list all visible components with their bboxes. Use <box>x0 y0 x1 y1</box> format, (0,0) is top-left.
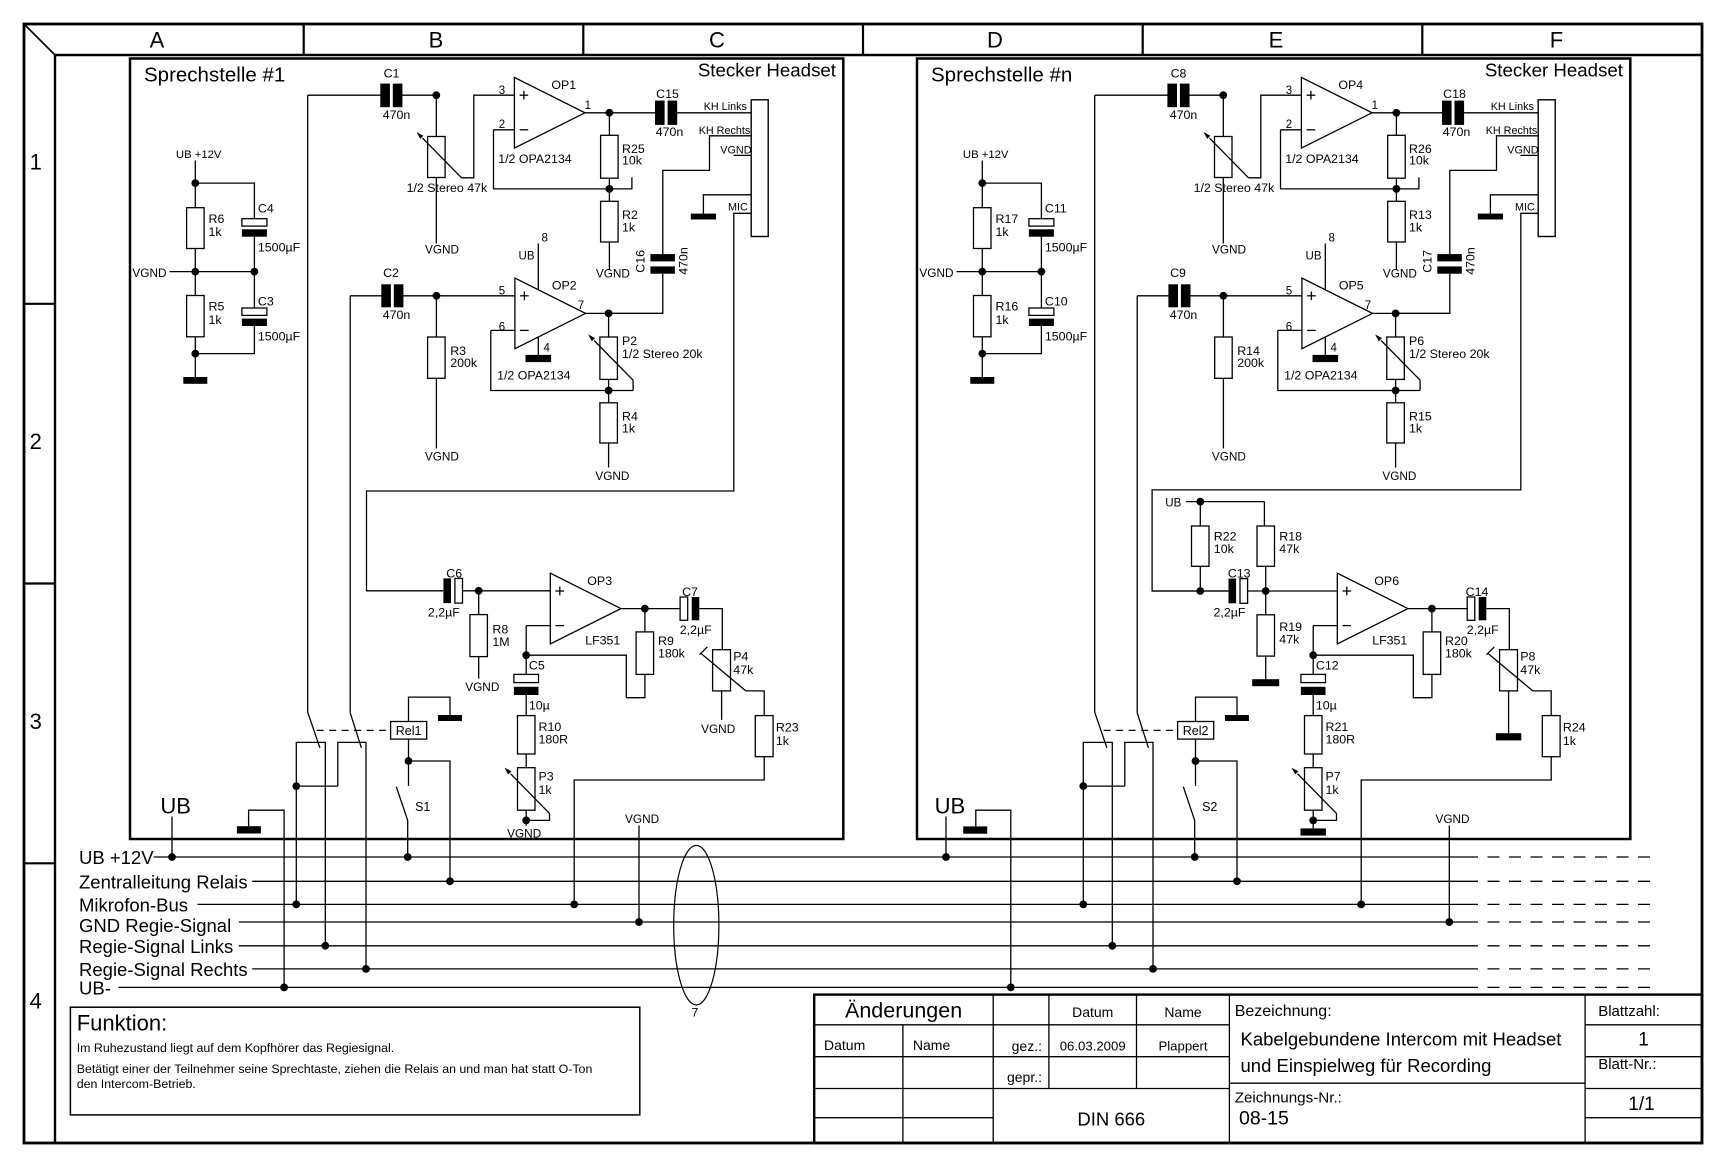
Funktion note box <box>70 1007 639 1115</box>
capacitor C16 470n <box>633 247 690 275</box>
wire MIC signal feed <box>1152 213 1538 591</box>
svg-text:S2: S2 <box>1202 800 1217 814</box>
svg-text:1k: 1k <box>996 225 1010 239</box>
resistor R14 200k <box>1215 337 1265 378</box>
svg-text:gepr.:: gepr.: <box>1007 1069 1042 1085</box>
capacitor C2 470n <box>381 266 410 322</box>
ground <box>1252 679 1279 686</box>
node <box>292 901 300 909</box>
wire <box>407 820 409 857</box>
svg-text:LF351: LF351 <box>1372 633 1407 647</box>
svg-text:Rel1: Rel1 <box>396 724 422 738</box>
bus Zentralleitung Relais <box>79 872 1657 893</box>
capacitor C9 470n <box>1168 266 1197 322</box>
node <box>1038 268 1046 276</box>
node <box>635 918 643 926</box>
svg-text:C13: C13 <box>1228 567 1251 581</box>
potentiometer P2 1/2 Stereo 20k <box>588 334 703 380</box>
svg-text:KH Links: KH Links <box>1491 101 1535 113</box>
svg-text:470n: 470n <box>1443 125 1471 139</box>
dashed relay link <box>317 729 391 731</box>
pin 4 ground <box>1313 337 1339 362</box>
svg-text:UB +12V: UB +12V <box>79 847 154 868</box>
svg-text:Sprechstelle #n: Sprechstelle #n <box>931 64 1072 87</box>
node <box>605 310 613 318</box>
resistor R9 180k <box>636 632 686 675</box>
svg-text:Blatt-Nr.:: Blatt-Nr.: <box>1598 1056 1656 1073</box>
svg-text:OP1: OP1 <box>551 78 576 92</box>
wire VGND tap <box>170 271 255 273</box>
wire <box>1395 178 1397 201</box>
svg-text:10k: 10k <box>1214 542 1235 556</box>
wire <box>525 810 527 825</box>
svg-text:1: 1 <box>1638 1030 1649 1051</box>
wire <box>525 754 527 768</box>
node <box>570 901 578 909</box>
station box Sprechstelle #n <box>917 59 1630 840</box>
svg-text:R24: R24 <box>1563 720 1586 734</box>
relay contact lever B <box>350 713 361 748</box>
node <box>405 757 413 765</box>
bus Regie-Signal Links <box>79 936 1657 957</box>
wire <box>1395 443 1397 468</box>
svg-text:Stecker Headset: Stecker Headset <box>698 60 837 81</box>
wire <box>1083 785 1125 787</box>
wire feedback <box>1313 655 1432 698</box>
potentiometer P8 47k <box>1487 647 1542 691</box>
svg-text:Bezeichnung:: Bezeichnung: <box>1235 1003 1332 1020</box>
svg-text:7: 7 <box>692 1006 699 1020</box>
svg-text:MIC: MIC <box>1515 202 1535 214</box>
node <box>522 651 530 659</box>
svg-text:Änderungen: Änderungen <box>845 999 962 1023</box>
wire <box>608 379 610 402</box>
svg-text:Name: Name <box>913 1037 951 1053</box>
svg-text:47k: 47k <box>1279 633 1300 647</box>
svg-text:KH Links: KH Links <box>704 101 748 113</box>
svg-text:08-15: 08-15 <box>1239 1108 1289 1130</box>
node <box>191 350 199 358</box>
node <box>1428 605 1436 613</box>
svg-text:P4: P4 <box>733 649 748 663</box>
potentiometer P6 1/2 Stereo 20k <box>1375 334 1490 380</box>
node <box>475 587 483 595</box>
node <box>978 179 986 187</box>
svg-text:1k: 1k <box>1326 783 1340 797</box>
svg-text:3: 3 <box>1286 85 1292 97</box>
svg-text:UB: UB <box>935 794 966 819</box>
node <box>446 877 454 885</box>
wire <box>402 295 437 297</box>
wire wiper <box>632 380 634 390</box>
resistor R20 180k <box>1423 632 1472 675</box>
column letters A-F <box>150 28 1564 53</box>
wire feedback <box>1278 330 1420 390</box>
svg-text:Name: Name <box>1164 1004 1202 1020</box>
wire <box>981 161 983 208</box>
wire <box>435 296 437 337</box>
svg-text:P8: P8 <box>1520 649 1535 663</box>
svg-text:47k: 47k <box>1279 542 1300 556</box>
wire output <box>1372 112 1442 114</box>
bus Mikrofon-Bus <box>79 895 1657 916</box>
wire <box>194 161 196 208</box>
svg-text:OP5: OP5 <box>1339 279 1364 293</box>
wire <box>253 235 255 310</box>
svg-text:1/2 OPA2134: 1/2 OPA2134 <box>1284 368 1358 382</box>
svg-text:VGND: VGND <box>507 827 541 841</box>
wire output <box>621 608 681 610</box>
wire feedback <box>494 130 610 189</box>
svg-text:Betätigt einer der Teilnehmer: Betätigt einer der Teilnehmer seine Spre… <box>77 1062 593 1076</box>
resistor R18 47k <box>1257 526 1302 566</box>
svg-text:3: 3 <box>499 85 505 97</box>
wire to Zentralleitung Relais <box>409 761 451 881</box>
node <box>191 268 199 276</box>
node <box>1192 757 1200 765</box>
svg-text:OP3: OP3 <box>587 574 612 588</box>
svg-text:4: 4 <box>544 343 551 355</box>
svg-text:Kabelgebundene Intercom mit He: Kabelgebundene Intercom mit Headset <box>1241 1029 1562 1050</box>
wire <box>1189 295 1224 297</box>
svg-text:C3: C3 <box>258 294 274 308</box>
wire wiper <box>526 813 549 820</box>
wire <box>195 183 254 219</box>
wire <box>1462 112 1538 114</box>
svg-text:47k: 47k <box>1520 663 1541 677</box>
capacitor C11 1500uF <box>1029 202 1088 255</box>
wire <box>608 178 610 201</box>
node <box>432 91 440 99</box>
wire coil to ground <box>1196 697 1238 721</box>
node <box>522 817 530 825</box>
svg-text:P6: P6 <box>1409 334 1424 348</box>
svg-text:1k: 1k <box>1409 421 1423 435</box>
wire <box>608 113 610 136</box>
node <box>1309 817 1317 825</box>
svg-text:VGND: VGND <box>1507 144 1538 156</box>
node <box>1393 185 1401 193</box>
svg-text:R17: R17 <box>996 212 1019 226</box>
svg-text:2: 2 <box>30 429 42 454</box>
op-amp OP6 LF351 <box>1337 573 1408 647</box>
wire <box>1312 626 1314 675</box>
wire UB to bus <box>171 817 173 858</box>
svg-text:R6: R6 <box>209 212 225 226</box>
wire - input <box>1313 625 1337 627</box>
node <box>1392 310 1400 318</box>
capacitor C4 1500uF <box>242 202 301 255</box>
op-amp OP3 LF351 <box>550 573 621 647</box>
capacitor C15 470n <box>655 87 683 139</box>
node <box>1309 651 1317 659</box>
svg-text:3: 3 <box>30 709 42 734</box>
wire <box>699 609 722 650</box>
node <box>321 942 329 950</box>
svg-text:C6: C6 <box>446 567 462 581</box>
dashed relay link <box>1104 729 1178 731</box>
node <box>978 350 986 358</box>
wire <box>435 378 437 448</box>
wire <box>1040 235 1042 310</box>
svg-text:1500µF: 1500µF <box>1045 241 1088 255</box>
svg-text:VGND: VGND <box>1212 242 1246 256</box>
wire <box>1395 242 1397 270</box>
svg-text:Im Ruhezustand liegt auf dem K: Im Ruhezustand liegt auf dem Kopfhörer d… <box>77 1041 395 1055</box>
svg-text:C18: C18 <box>1443 87 1466 101</box>
svg-text:1: 1 <box>30 150 42 175</box>
wire <box>194 249 196 296</box>
pin 8 power <box>519 233 548 291</box>
resistor R21 180R <box>1305 716 1356 754</box>
svg-text:200k: 200k <box>1237 356 1265 370</box>
svg-text:C12: C12 <box>1316 659 1339 673</box>
wire wiper to op-amp + input <box>1249 95 1302 178</box>
svg-text:VGND: VGND <box>465 680 499 694</box>
wire VGND tap <box>957 271 1042 273</box>
svg-text:UB +12V: UB +12V <box>963 149 1009 161</box>
wire <box>1265 656 1267 679</box>
svg-text:VGND: VGND <box>132 266 166 280</box>
wire to Mikrofon-Bus <box>295 786 297 904</box>
svg-text:180k: 180k <box>658 647 686 661</box>
ground <box>183 377 207 384</box>
ground <box>1496 733 1521 740</box>
potentiometer P3 1k <box>505 768 554 814</box>
svg-text:R23: R23 <box>776 720 799 734</box>
svg-text:C8: C8 <box>1171 66 1187 80</box>
svg-text:S1: S1 <box>415 800 430 814</box>
capacitor C7 2,2uF <box>680 585 712 637</box>
node <box>362 965 370 973</box>
wire <box>308 94 383 96</box>
svg-text:C7: C7 <box>682 585 698 599</box>
resistor R15 1k <box>1387 403 1432 443</box>
wire <box>435 95 437 136</box>
svg-text:DIN 666: DIN 666 <box>1077 1109 1145 1130</box>
node <box>191 179 199 187</box>
capacitor C8 470n <box>1167 66 1197 122</box>
svg-text:470n: 470n <box>383 108 411 122</box>
svg-text:1/2 Stereo 20k: 1/2 Stereo 20k <box>1409 347 1490 361</box>
row numbers 1-4 <box>30 150 42 1014</box>
capacitor C13 2,2uF <box>1214 567 1251 620</box>
ground to UB- bus <box>237 810 284 987</box>
svg-text:LF351: LF351 <box>585 633 620 647</box>
potentiometer 1/2 Stereo 47k <box>1194 132 1275 195</box>
svg-text:2,2µF: 2,2µF <box>680 623 712 637</box>
svg-text:C14: C14 <box>1466 585 1489 599</box>
wire KH Rechts <box>663 136 751 254</box>
svg-text:8: 8 <box>1329 233 1335 245</box>
node <box>1191 853 1199 861</box>
relay contact terminals B <box>1125 742 1153 969</box>
svg-text:UB-: UB- <box>79 978 111 999</box>
svg-text:VGND: VGND <box>596 266 630 280</box>
svg-text:6: 6 <box>1286 321 1292 333</box>
resistor R6 <box>187 208 225 249</box>
wire <box>408 739 410 786</box>
capacitor C14 2,2uF <box>1466 585 1500 637</box>
svg-text:470n: 470n <box>1170 308 1198 322</box>
wire feedback <box>1281 130 1397 189</box>
wire <box>1312 754 1314 768</box>
wire <box>478 657 480 679</box>
wire output <box>586 312 663 314</box>
wire feedback <box>491 330 633 390</box>
wire <box>350 295 383 297</box>
pin 4 ground <box>526 337 552 362</box>
wire <box>1199 566 1201 591</box>
relay coil Rel2 <box>1178 722 1214 740</box>
svg-text:UB: UB <box>1165 497 1181 509</box>
svg-text:470n: 470n <box>1463 247 1477 275</box>
svg-text:VGND: VGND <box>701 722 735 736</box>
svg-text:6: 6 <box>499 321 505 333</box>
capacitor C1 470n <box>380 66 410 122</box>
svg-text:C5: C5 <box>529 659 545 673</box>
wire wiper <box>1533 691 1551 716</box>
svg-text:Zeichnungs-Nr.:: Zeichnungs-Nr.: <box>1235 1090 1342 1107</box>
svg-text:C9: C9 <box>1170 266 1186 280</box>
wire <box>1312 810 1314 828</box>
node <box>942 853 950 861</box>
wire <box>721 691 723 720</box>
svg-text:10µ: 10µ <box>529 699 550 713</box>
svg-text:1/2 OPA2134: 1/2 OPA2134 <box>497 368 571 382</box>
node <box>606 185 614 193</box>
title block <box>814 995 1702 1143</box>
svg-text:VGND: VGND <box>919 266 953 280</box>
svg-text:Blattzahl:: Blattzahl: <box>1598 1003 1660 1020</box>
svg-text:C2: C2 <box>383 266 399 280</box>
node <box>1079 782 1087 790</box>
node <box>641 605 649 613</box>
svg-text:MIC: MIC <box>728 202 748 214</box>
svg-text:A: A <box>150 28 165 53</box>
node <box>168 853 176 861</box>
svg-text:06.03.2009: 06.03.2009 <box>1060 1038 1126 1053</box>
svg-text:1500µF: 1500µF <box>1045 329 1088 343</box>
relay coil Rel1 <box>391 722 427 740</box>
node <box>1445 918 1453 926</box>
wire - input <box>1281 129 1302 131</box>
svg-text:1: 1 <box>1372 100 1378 112</box>
bus Regie-Signal Rechts <box>79 959 1657 980</box>
wire - input <box>526 625 550 627</box>
node <box>1079 901 1087 909</box>
svg-text:8: 8 <box>542 233 548 245</box>
node <box>292 782 300 790</box>
svg-text:1/2 Stereo 47k: 1/2 Stereo 47k <box>407 181 488 195</box>
potentiometer P4 47k <box>700 647 755 691</box>
svg-text:1k: 1k <box>1563 734 1577 748</box>
svg-text:1k: 1k <box>776 734 790 748</box>
op-amp OP5 1/2 OPA2134 <box>1284 278 1372 382</box>
wire <box>463 590 551 592</box>
wire output <box>585 112 655 114</box>
svg-text:P7: P7 <box>1326 770 1341 784</box>
wire <box>195 323 254 354</box>
svg-text:1k: 1k <box>996 313 1010 327</box>
station box Sprechstelle #1 <box>130 59 843 840</box>
wire <box>1395 313 1397 337</box>
wire UB to bus <box>945 817 947 858</box>
svg-text:P3: P3 <box>539 770 554 784</box>
node <box>1196 587 1204 595</box>
svg-text:1/2 Stereo 47k: 1/2 Stereo 47k <box>1194 181 1275 195</box>
wire <box>1431 609 1433 632</box>
svg-text:R5: R5 <box>209 300 225 314</box>
svg-text:OP6: OP6 <box>1374 574 1399 588</box>
wire <box>675 112 751 114</box>
wire output <box>1408 608 1468 610</box>
wire <box>1222 296 1224 337</box>
svg-text:1500µF: 1500µF <box>258 329 301 343</box>
wire <box>435 178 437 244</box>
ground <box>1225 715 1249 721</box>
wire <box>608 242 610 270</box>
svg-text:1/2 Stereo 20k: 1/2 Stereo 20k <box>622 347 703 361</box>
relay contact lever A <box>1095 712 1107 748</box>
wire <box>1263 502 1265 526</box>
svg-text:4: 4 <box>30 989 42 1014</box>
wire to Mikrofon-Bus <box>1082 786 1084 904</box>
resistor R10 180R <box>518 716 569 754</box>
wire VGND stub <box>1521 154 1539 156</box>
ground to UB- bus <box>963 810 1011 987</box>
svg-text:5: 5 <box>1286 285 1292 297</box>
ground <box>970 377 994 384</box>
wire <box>478 591 480 615</box>
wire <box>436 295 515 297</box>
svg-text:VGND: VGND <box>1382 469 1416 483</box>
svg-text:VGND: VGND <box>425 450 459 464</box>
ground <box>691 214 716 220</box>
headset connector <box>1538 100 1555 237</box>
svg-text:470n: 470n <box>676 247 690 275</box>
svg-text:UB: UB <box>519 251 535 263</box>
svg-text:C: C <box>709 28 725 53</box>
wire MIC signal feed <box>367 213 752 591</box>
svg-text:VGND: VGND <box>625 812 659 826</box>
svg-text:1: 1 <box>585 100 591 112</box>
svg-text:180k: 180k <box>1445 647 1473 661</box>
node <box>1007 984 1015 992</box>
svg-text:VGND: VGND <box>1435 812 1469 826</box>
node <box>433 292 441 300</box>
node <box>1393 109 1401 117</box>
wire KH Rechts <box>1450 136 1538 254</box>
headset connector <box>751 100 768 237</box>
relay contact terminals A <box>1083 742 1112 945</box>
svg-text:10µ: 10µ <box>1316 699 1337 713</box>
resistor R22 10k <box>1192 526 1237 566</box>
capacitor C10 1500uF <box>1029 294 1088 343</box>
switch S2 <box>1183 787 1217 821</box>
bus UB +12V <box>79 847 1657 868</box>
svg-text:1k: 1k <box>209 225 223 239</box>
svg-text:gez.:: gez.: <box>1012 1038 1042 1054</box>
wire <box>608 313 610 337</box>
wire <box>1396 274 1450 314</box>
node <box>1357 901 1365 909</box>
svg-text:GND Regie-Signal: GND Regie-Signal <box>79 915 231 936</box>
potentiometer 1/2 Stereo 47k <box>407 132 488 195</box>
wire <box>1194 820 1196 857</box>
svg-text:Plappert: Plappert <box>1158 1038 1207 1053</box>
capacitor C12 10u <box>1301 659 1339 713</box>
